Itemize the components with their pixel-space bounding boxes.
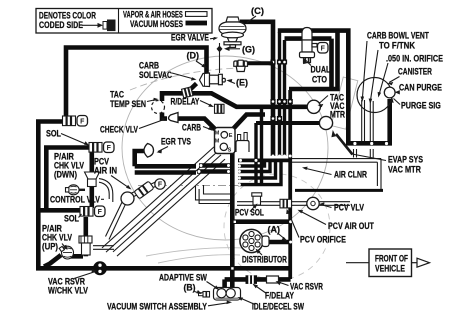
- svg-text:PURGE SIG: PURGE SIG: [401, 101, 441, 111]
- svg-text:(C): (C): [251, 6, 264, 16]
- svg-text:AIR CLNR: AIR CLNR: [334, 170, 367, 180]
- svg-text:(G): (G): [242, 45, 255, 55]
- svg-text:(DWN): (DWN): [54, 169, 77, 180]
- svg-text:TEMP SEN: TEMP SEN: [110, 99, 146, 109]
- svg-text:(D): (D): [187, 51, 200, 61]
- svg-text:R/DELAY: R/DELAY: [171, 97, 201, 107]
- svg-text:PCV AIR OUT: PCV AIR OUT: [328, 221, 374, 231]
- svg-text:F: F: [158, 182, 163, 189]
- svg-text:VEHICLE: VEHICLE: [375, 264, 406, 274]
- svg-text:CONTROL VLV: CONTROL VLV: [50, 195, 100, 205]
- svg-text:VAC MTR: VAC MTR: [388, 165, 421, 175]
- svg-text:CANISTER: CANISTER: [398, 67, 432, 77]
- svg-text:AIR IN: AIR IN: [94, 165, 117, 176]
- svg-text:M: M: [215, 131, 220, 137]
- svg-text:E: E: [229, 133, 233, 139]
- svg-text:EVAP SYS: EVAP SYS: [388, 155, 423, 165]
- svg-text:SOL: SOL: [64, 214, 79, 224]
- svg-text:CODED SIDE: CODED SIDE: [39, 20, 83, 30]
- svg-text:IDLE/DECEL SW: IDLE/DECEL SW: [252, 302, 304, 312]
- svg-text:MTR: MTR: [330, 110, 345, 120]
- svg-text:CTO: CTO: [312, 75, 327, 85]
- svg-text:CARB: CARB: [182, 123, 201, 133]
- svg-text:M: M: [215, 139, 220, 145]
- svg-text:(A): (A): [268, 225, 281, 235]
- svg-text:PCV SOL: PCV SOL: [235, 208, 264, 218]
- svg-text:F: F: [107, 145, 112, 152]
- svg-text:DISTRIBUTOR: DISTRIBUTOR: [242, 255, 287, 265]
- svg-text:CHECK VLV: CHECK VLV: [100, 125, 139, 135]
- svg-text:VACUUM SWITCH ASSEMBLY: VACUUM SWITCH ASSEMBLY: [107, 302, 207, 312]
- svg-text:EGR VALVE: EGR VALVE: [171, 33, 209, 43]
- svg-text:SOL: SOL: [46, 129, 61, 139]
- svg-text:SOLEVAC: SOLEVAC: [139, 70, 172, 80]
- svg-text:(UP): (UP): [42, 241, 58, 252]
- svg-text:W/CHK VLV: W/CHK VLV: [48, 286, 88, 296]
- svg-text:F: F: [321, 46, 326, 53]
- svg-text:S: S: [228, 148, 232, 154]
- svg-text:TO F/TNK: TO F/TNK: [379, 40, 416, 51]
- svg-text:PCV VLV: PCV VLV: [334, 203, 365, 213]
- svg-text:VACUUM HOSES: VACUUM HOSES: [130, 19, 183, 29]
- svg-text:EGR TVS: EGR TVS: [161, 137, 191, 147]
- svg-text:(E): (E): [236, 78, 248, 88]
- svg-text:.050 IN. ORIFICE: .050 IN. ORIFICE: [386, 54, 443, 64]
- svg-text:F/DELAY: F/DELAY: [265, 291, 294, 301]
- svg-text:(B): (B): [184, 282, 196, 292]
- svg-text:DUAL: DUAL: [311, 65, 331, 75]
- svg-text:F: F: [80, 119, 85, 126]
- svg-text:VAC RSVR: VAC RSVR: [290, 281, 323, 291]
- svg-text:PCV ORIFICE: PCV ORIFICE: [300, 235, 346, 245]
- svg-text:ADAPTIVE SW: ADAPTIVE SW: [159, 273, 207, 283]
- svg-text:FRONT OF: FRONT OF: [375, 253, 408, 263]
- svg-text:F: F: [98, 209, 103, 216]
- svg-text:CAN PURGE: CAN PURGE: [399, 83, 442, 93]
